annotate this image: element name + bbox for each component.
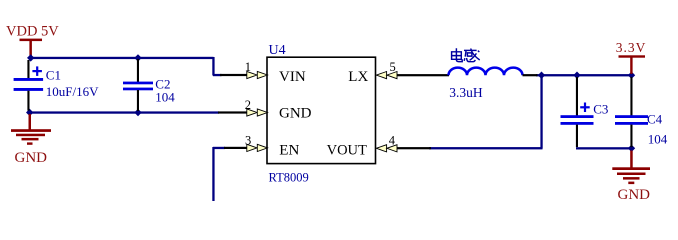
wire pin3 horizontal [213,147,225,149]
capacitor C2 [123,59,153,111]
junction inductor output [538,72,545,79]
ground symbol left [11,114,51,145]
wire right rail [536,74,633,76]
svg-text:EN: EN [279,143,299,159]
svg-text:10uF/16V: 10uF/16V [46,84,99,99]
svg-text:C1: C1 [46,67,61,82]
junction C1 bottom [26,109,33,116]
capacitor C4 [615,77,648,147]
svg-text:C4: C4 [647,111,663,126]
wire cap ground rail [576,147,633,149]
svg-text:VDD 5V: VDD 5V [6,23,59,39]
IC U4 RT8009 body [267,57,376,163]
svg-text:104: 104 [648,131,668,146]
svg-text:2: 2 [245,98,251,112]
svg-text:RT8009: RT8009 [269,170,309,184]
pin 1 stub [220,74,250,76]
power VDD stem [29,41,32,57]
svg-text:VIN: VIN [279,69,306,85]
wire top-left rail [30,57,214,59]
junction C2 bottom [134,109,141,116]
junction VDD tap [27,54,34,61]
svg-text:3: 3 [245,133,251,147]
pin 2 stub [218,111,250,113]
svg-text:3.3uH: 3.3uH [449,85,483,100]
power VDD bar [20,39,43,42]
svg-text:5: 5 [390,60,396,74]
ground symbol right [612,151,650,185]
wire EN down to edge [212,147,214,201]
wire into pin 1 [213,74,222,76]
junction C4 top 3.3V node [628,72,635,79]
svg-text:GND: GND [618,187,651,201]
svg-text:GND: GND [15,150,48,166]
capacitor C1 [14,60,43,111]
capacitor C3 [561,77,594,147]
junction C3 top [573,72,580,79]
wire VOUT run [429,147,543,149]
pin 3 stub [224,147,250,149]
junction C2 top [134,54,141,61]
svg-text:VOUT: VOUT [327,143,367,159]
label dian-gan (Chinese: inductor) [452,48,480,61]
svg-text:C3: C3 [593,101,608,116]
inductor right lead [523,74,538,76]
svg-text:3.3V: 3.3V [616,40,647,55]
pin 4 stub [397,147,432,149]
svg-text:U4: U4 [269,43,286,58]
wire bottom-left rail [29,111,219,113]
junction C4 bottom ground tap [628,145,635,152]
power 3.3V bar [619,55,646,57]
wire VOUT riser [540,75,542,149]
power 3.3V stem [630,57,632,74]
wire step down to pin1 [212,57,214,76]
svg-text:1: 1 [245,60,251,74]
svg-text:GND: GND [279,105,312,121]
svg-text:LX: LX [348,69,368,85]
inductor L coil [449,68,523,76]
svg-text:4: 4 [389,134,396,148]
svg-text:104: 104 [155,90,175,105]
pin 5 stub [397,74,450,76]
